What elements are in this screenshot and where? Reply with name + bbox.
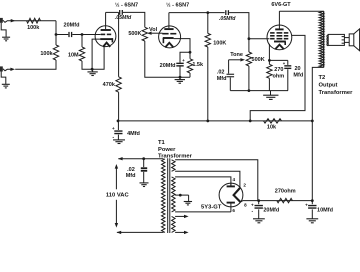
svg-text:100K: 100K bbox=[213, 40, 226, 46]
svg-text:.02: .02 bbox=[217, 70, 225, 76]
svg-text:Mfd: Mfd bbox=[217, 76, 227, 82]
node dot V2 cathode bbox=[189, 51, 192, 54]
ground V1 cathode bbox=[87, 69, 97, 75]
arrowhead on jack2 wire bbox=[10, 68, 15, 71]
T1 secondary 6.3V winding bbox=[172, 216, 176, 232]
svg-text:500K: 500K bbox=[252, 57, 265, 63]
capacitor C7 20Mfd cathode bbox=[269, 60, 291, 90]
wire AC line bottom bbox=[117, 231, 164, 233]
svg-text:T2: T2 bbox=[319, 75, 326, 81]
V2 heater chevron bbox=[165, 43, 173, 48]
V1 plate lead bbox=[105, 12, 107, 29]
V3 grid row1 bbox=[270, 32, 288, 34]
wire V1 plate to C2 bbox=[106, 11, 119, 13]
label C8 minus bbox=[251, 208, 253, 214]
wire 5V tap bottom to pin2 bbox=[175, 171, 240, 188]
label T1 Power bbox=[158, 147, 176, 153]
ground V2 cathode bbox=[175, 77, 185, 83]
svg-text:Tone: Tone bbox=[230, 52, 243, 58]
wire cathode-tone ground rail bbox=[230, 90, 288, 92]
V1 cathode lead to ground bbox=[92, 39, 100, 69]
label R9 500K bbox=[252, 57, 265, 63]
wire AC line top bbox=[118, 158, 163, 160]
V1 heater chevron bbox=[103, 43, 110, 47]
node dot V3 cathode bbox=[268, 59, 271, 62]
svg-text:20Mfd: 20Mfd bbox=[263, 208, 279, 214]
wire C1 to node B bbox=[72, 34, 82, 36]
label R8 ohm bbox=[272, 73, 284, 79]
svg-text:½ - 6SN7: ½ - 6SN7 bbox=[166, 1, 189, 8]
svg-text:270ohm: 270ohm bbox=[275, 188, 296, 194]
capacitor C5 .05Mfd bbox=[226, 10, 229, 15]
label T2 Transformer bbox=[319, 90, 354, 96]
node dot B+ left bbox=[117, 120, 120, 123]
node dot A (56,34.5) bbox=[55, 33, 58, 36]
V4 plate1 bar bbox=[227, 183, 235, 187]
wiper arrow Vol bbox=[147, 32, 163, 35]
label Vol bbox=[149, 27, 158, 33]
label C2 .05Mfd bbox=[115, 15, 132, 21]
svg-text:Output: Output bbox=[319, 83, 338, 89]
node dot V2 cath ground bbox=[179, 76, 182, 79]
svg-text:Power: Power bbox=[158, 147, 176, 153]
svg-text:+: + bbox=[251, 202, 254, 207]
label T1 Transformer bbox=[158, 154, 193, 160]
node dot B (82,34.5) bbox=[81, 33, 84, 36]
label C5 .05Mfd bbox=[219, 16, 236, 22]
node dot 6V6 grid bbox=[248, 37, 251, 40]
V3 plate lead bbox=[278, 11, 280, 28]
label C3 minus bbox=[112, 135, 114, 141]
svg-text:ohm: ohm bbox=[272, 73, 284, 79]
label C8 20Mfd bbox=[263, 208, 279, 214]
label R6 1.5k bbox=[192, 62, 204, 68]
V2 cathode bar with hook bbox=[163, 38, 174, 43]
svg-text:1.5k: 1.5k bbox=[192, 62, 204, 68]
input jack J2 bbox=[0, 66, 3, 71]
resistor R4 470k plate load bbox=[116, 12, 121, 121]
label C9 plus bbox=[305, 202, 308, 207]
V2 plate bar bbox=[164, 28, 173, 30]
capacitor C6 .02Mfd tone bbox=[227, 60, 235, 91]
ground V3 cathode bbox=[263, 91, 278, 100]
speaker connector wires bbox=[344, 38, 349, 43]
V4 plate2 bar bbox=[227, 203, 235, 212]
label R5 500K bbox=[128, 31, 141, 37]
node dot screen on rail bbox=[249, 120, 252, 123]
svg-text:+: + bbox=[112, 126, 115, 131]
label T2 Output bbox=[319, 83, 338, 89]
wire R2 bottom to jack2 bbox=[15, 60, 56, 69]
svg-text:10M: 10M bbox=[68, 53, 79, 59]
svg-text:20: 20 bbox=[294, 66, 300, 72]
pin label 4 bbox=[233, 177, 236, 182]
svg-text:T1: T1 bbox=[158, 140, 166, 146]
pin label 2 bbox=[243, 183, 246, 188]
label C1 20Mfd bbox=[64, 22, 80, 28]
wire 6V6 grid bbox=[249, 38, 270, 40]
speaker voice coil box bbox=[327, 34, 345, 45]
capacitor C10 .02Mfd line bbox=[141, 159, 147, 183]
label C4 20Mfd bbox=[160, 63, 176, 69]
transformer T1 core bbox=[168, 158, 170, 233]
label C6 .02 bbox=[217, 70, 225, 76]
svg-text:.05Mfd: .05Mfd bbox=[115, 15, 132, 21]
rectifier V4 envelope bbox=[219, 183, 243, 207]
label C10 .02 bbox=[127, 167, 135, 173]
svg-text:Mfd: Mfd bbox=[126, 173, 136, 179]
wire B+ rail bbox=[118, 120, 312, 122]
potentiometer R5 500K Vol bbox=[142, 27, 147, 41]
wire C2 to volume pot bbox=[123, 12, 145, 27]
resistor R8 270ohm bbox=[267, 60, 272, 90]
label tube V2 half-6SN7 bbox=[166, 1, 189, 8]
potentiometer R9 500K Tone bbox=[246, 39, 251, 91]
label R10 270ohm bbox=[275, 188, 296, 194]
svg-text:2: 2 bbox=[243, 183, 246, 188]
V1 grid dashes bbox=[101, 33, 112, 35]
arrowhead on jack1 wire bbox=[11, 19, 16, 22]
heater tap arrow 1 bbox=[175, 215, 189, 218]
label T1 bbox=[158, 140, 166, 146]
wire HV center tap bbox=[175, 195, 189, 201]
V3 cathode bar with hook bbox=[274, 42, 286, 46]
svg-text:10k: 10k bbox=[267, 124, 277, 130]
label tube V3 6V6-GT bbox=[271, 2, 291, 8]
capacitor C3 4Mfd bbox=[114, 121, 122, 140]
T1 secondary 5V winding bbox=[172, 160, 176, 172]
svg-text:100k: 100k bbox=[40, 51, 53, 57]
AC source arrow down bbox=[115, 200, 118, 228]
label C10 Mfd bbox=[126, 173, 136, 179]
node dot tone pot bottom bbox=[248, 89, 251, 92]
arrowhead AC top bbox=[118, 157, 123, 160]
wiper arrow Tone bbox=[229, 58, 245, 61]
output transformer T2 winding bbox=[319, 11, 324, 67]
svg-text:Transformer: Transformer bbox=[158, 154, 193, 160]
svg-text:20Mfd: 20Mfd bbox=[64, 22, 80, 28]
svg-text:Mfd: Mfd bbox=[293, 72, 303, 78]
wire HV tap bottom to pin6 bbox=[175, 211, 231, 213]
V2 plate lead bbox=[168, 13, 170, 29]
label R1 100k bbox=[27, 25, 40, 31]
wire T2 bottom to B+ line bbox=[312, 67, 324, 200]
label R11 10k bbox=[267, 124, 277, 130]
resistor R10 270ohm filter bbox=[277, 198, 293, 202]
label C6 Mfd bbox=[217, 76, 227, 82]
label C3 4Mfd bbox=[127, 131, 140, 137]
pin label 8 bbox=[244, 202, 247, 207]
pin label 6 bbox=[232, 208, 235, 213]
svg-text:4: 4 bbox=[233, 177, 236, 182]
node dot AC cap bbox=[142, 157, 145, 160]
label C9 10Mfd bbox=[317, 208, 333, 214]
wire jack1 to grid resistor bbox=[3, 20, 56, 22]
transformer T1 primary winding bbox=[162, 159, 166, 233]
label R3 10M bbox=[68, 53, 79, 59]
svg-text:110 VAC: 110 VAC bbox=[106, 193, 130, 199]
node dot C8 bbox=[257, 199, 260, 202]
capacitor C1 20Mfd bbox=[69, 32, 72, 37]
svg-text:Transformer: Transformer bbox=[319, 90, 354, 96]
label C7 Mfd bbox=[293, 72, 303, 78]
wire V3 plate to T2 bbox=[279, 10, 323, 12]
AC source arrow up bbox=[115, 164, 118, 189]
V2 cathode lead bbox=[174, 39, 190, 53]
svg-text:500K: 500K bbox=[128, 31, 141, 37]
label R2 100k bbox=[40, 51, 53, 57]
label C4 plus bbox=[182, 58, 185, 63]
svg-text:8: 8 bbox=[244, 202, 247, 207]
label C7 plus bbox=[283, 61, 286, 66]
ground C8 bbox=[253, 219, 265, 223]
node dot C9 bbox=[311, 199, 314, 202]
label T2 bbox=[319, 75, 326, 81]
node dot HV center tap bbox=[179, 194, 182, 197]
triode V1 envelope bbox=[95, 26, 116, 47]
V2 grid dashes bbox=[162, 33, 176, 35]
node dot R7 on rail bbox=[206, 120, 209, 123]
svg-text:5Y3-GT: 5Y3-GT bbox=[201, 204, 222, 210]
label R4 470k bbox=[103, 82, 116, 88]
wire V2 plate to C5 bbox=[169, 12, 225, 14]
resistor R7 100K plate load bbox=[205, 13, 210, 121]
svg-text:6V6-GT: 6V6-GT bbox=[271, 2, 291, 8]
pentode V3 envelope bbox=[267, 25, 292, 50]
resistor R3 10M bbox=[79, 35, 84, 62]
svg-text:270: 270 bbox=[274, 67, 283, 73]
triode V2 envelope bbox=[159, 26, 181, 48]
wire input node vertical bbox=[55, 21, 57, 45]
V4 filament chevron bbox=[234, 188, 241, 202]
svg-text:+: + bbox=[305, 202, 308, 207]
heater tap arrow 2 bbox=[175, 231, 189, 234]
resistor R11 10k bbox=[264, 119, 282, 123]
wire HV tap top to pin4 bbox=[175, 177, 231, 186]
capacitor C4 20Mfd cathode bbox=[176, 52, 190, 77]
svg-text:10Mfd: 10Mfd bbox=[317, 208, 333, 214]
capacitor C2 .05Mfd bbox=[120, 10, 123, 15]
capacitor C9 10Mfd filter bbox=[308, 201, 316, 219]
svg-text:470k: 470k bbox=[103, 82, 116, 88]
ground C9 bbox=[306, 219, 318, 223]
resistor R1 100k (series input) bbox=[27, 18, 41, 23]
V3 heater chevron bbox=[275, 45, 283, 49]
V3 grid row2 screen bbox=[270, 35, 288, 37]
T1 secondary HV winding bbox=[172, 177, 176, 212]
wire grid V1 bbox=[82, 34, 101, 36]
ground jack2 bbox=[1, 72, 10, 88]
svg-text:.05Mfd: .05Mfd bbox=[219, 16, 236, 22]
V1 bottom lead bbox=[92, 46, 104, 69]
V1 plate bar bbox=[101, 29, 111, 31]
label Tone bbox=[230, 52, 243, 58]
resistor R6 1.5k bbox=[187, 52, 192, 77]
wire screen grid bbox=[250, 35, 305, 121]
label 110 VAC bbox=[106, 193, 130, 199]
arrowhead AC bottom bbox=[117, 231, 122, 234]
label R7 100K bbox=[213, 40, 226, 46]
ground jack1 bbox=[1, 23, 10, 41]
svg-text:½ - 6SN7: ½ - 6SN7 bbox=[115, 1, 138, 8]
svg-text:20Mfd: 20Mfd bbox=[160, 63, 176, 69]
input jack J1 bbox=[0, 18, 3, 23]
wire R3 to ground bbox=[82, 61, 92, 69]
ground C3 bbox=[113, 140, 125, 144]
wire C5 to 6V6 grid node bbox=[229, 13, 249, 39]
speaker bbox=[349, 29, 359, 51]
label C7 20 bbox=[294, 66, 300, 72]
resistor R2 100k (to jack2) bbox=[53, 45, 58, 60]
label tube V4 5Y3-GT bbox=[201, 204, 222, 210]
node dot T2 rail crossing bbox=[311, 120, 314, 123]
svg-text:.02: .02 bbox=[127, 167, 135, 173]
V3 cathode lead bbox=[268, 44, 270, 61]
label C8 plus bbox=[251, 202, 254, 207]
ground HV center tap bbox=[184, 202, 192, 205]
V1 cathode bar with hook bbox=[100, 38, 113, 42]
wire 5V tap top to B+ node bbox=[175, 160, 258, 201]
wire jack2 bbox=[3, 69, 11, 71]
node dot V1 ground bbox=[91, 68, 94, 71]
svg-text:100k: 100k bbox=[27, 25, 40, 31]
svg-text:6: 6 bbox=[232, 208, 235, 213]
wire V4 filament to B+ rail bbox=[240, 201, 258, 202]
wire rectifier output rail bbox=[259, 200, 313, 202]
label C3 plus bbox=[112, 126, 115, 131]
label tube V1 half-6SN7 bbox=[115, 1, 138, 8]
V3 grid row3 bbox=[270, 38, 288, 40]
svg-text:4Mfd: 4Mfd bbox=[127, 131, 140, 137]
wire vol pot bottom bbox=[145, 41, 190, 77]
ground C10 bbox=[140, 183, 149, 187]
capacitor C8 20Mfd filter bbox=[255, 201, 263, 219]
node dot plate2 (208) bbox=[206, 11, 209, 14]
V3 plate bar bbox=[275, 28, 283, 30]
wire node A to C1 bbox=[56, 34, 68, 36]
label R8 270 bbox=[274, 67, 283, 73]
